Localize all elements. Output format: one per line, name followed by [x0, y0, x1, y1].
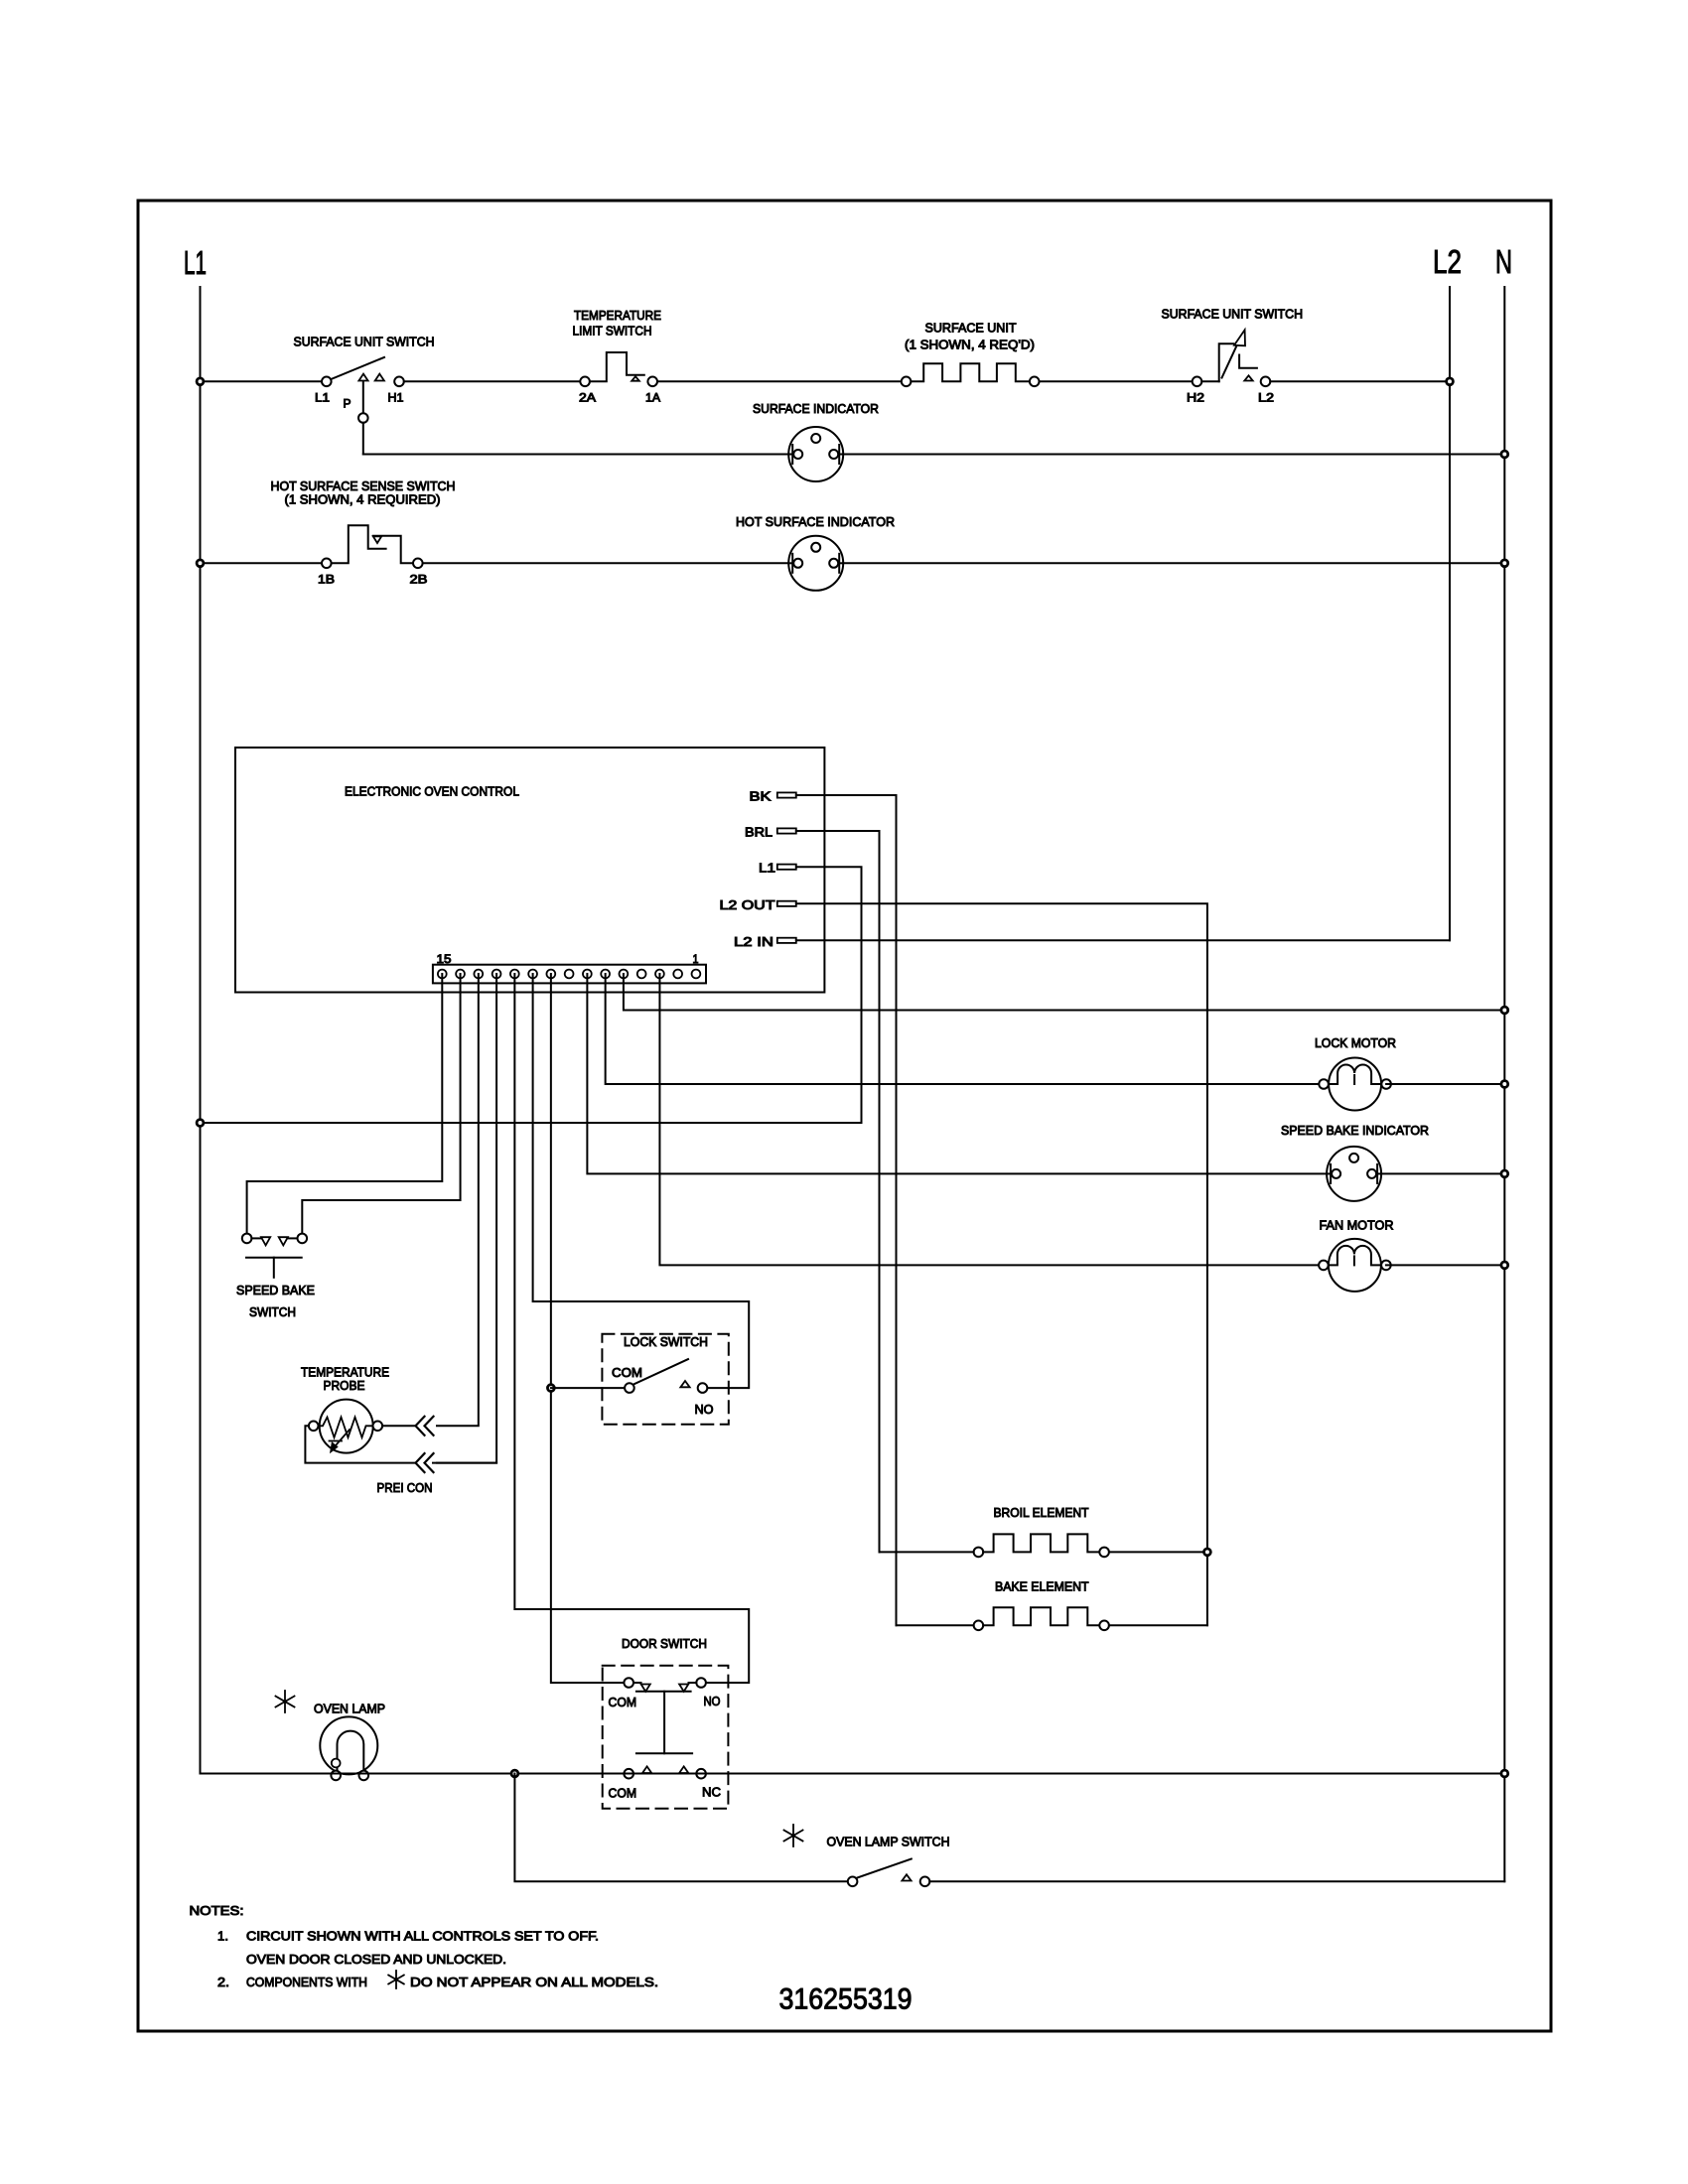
svg-text:P: P: [344, 397, 352, 411]
wire pin 13 to temperature probe connector: [437, 974, 479, 1426]
terminal circle on P branch: [358, 413, 368, 423]
bake element terminals and coil: [974, 1621, 984, 1631]
EOC strip pin 4: [637, 970, 646, 979]
wire pin 9 down to lock and door switches: [551, 974, 625, 1683]
wire bottom row L1 rail to oven lamp and door switch: [201, 1773, 1505, 1775]
hot surface sense switch contact triangle: [373, 536, 381, 543]
net N vertical rail wire: [1503, 287, 1505, 1881]
speed bake indicator lamp: [1327, 1147, 1381, 1201]
EOC strip pin 12: [492, 970, 501, 979]
lock switch contact triangle: [680, 1381, 689, 1387]
door switch lower contact triangles: [642, 1766, 651, 1773]
svg-text:SURFACE UNIT SWITCH: SURFACE UNIT SWITCH: [1162, 307, 1304, 322]
wire hot surface row to indicator: [423, 562, 789, 564]
svg-text:LOCK MOTOR: LOCK MOTOR: [1315, 1035, 1396, 1050]
wire pin 5 to N rail: [624, 974, 1504, 1011]
junction on L2 rail at top row: [1447, 378, 1454, 385]
svg-text:NOTES:: NOTES:: [190, 1903, 244, 1918]
wire top row L2 terminal to L2 rail: [1270, 380, 1450, 382]
svg-text:L1: L1: [315, 391, 330, 405]
EOC strip pin 9: [546, 970, 555, 979]
svg-text:DO NOT APPEAR ON ALL MODELS.: DO NOT APPEAR ON ALL MODELS.: [410, 1975, 658, 1989]
EOC strip pin 11: [510, 970, 519, 979]
probe connector chevrons upper: [416, 1417, 425, 1435]
wire lock motor to N rail: [1386, 1083, 1504, 1085]
wire pin 12 to probe return connector: [437, 974, 496, 1463]
broil element terminals and coil: [974, 1548, 984, 1558]
hot surface sense switch terminal 2B: [413, 559, 423, 569]
svg-text:L2: L2: [1433, 243, 1462, 280]
junction on L1 rail at hot surface row: [197, 560, 204, 567]
wire bake element to L2 OUT drop: [1109, 1624, 1207, 1626]
wire hot surface row to N rail: [843, 562, 1504, 564]
svg-text:H2: H2: [1187, 391, 1204, 405]
svg-text:H1: H1: [388, 391, 404, 405]
svg-text:NO: NO: [704, 1694, 721, 1708]
svg-text:N: N: [1495, 243, 1512, 280]
svg-text:COM: COM: [609, 1695, 637, 1709]
temperature limit switch terminal 1A: [647, 377, 657, 387]
temperature limit switch terminal 2A: [580, 377, 590, 387]
wire pin 11 to door switch NO: [514, 974, 749, 1683]
temperature limit switch contact triangle: [632, 376, 639, 381]
svg-text:1: 1: [693, 952, 699, 966]
svg-text:BROIL ELEMENT: BROIL ELEMENT: [994, 1505, 1089, 1520]
EOC tab BK terminal: [777, 792, 796, 797]
svg-text:FAN MOTOR: FAN MOTOR: [1320, 1218, 1394, 1233]
net L1 vertical rail wire: [200, 287, 202, 1774]
surface unit switch SW2 body with arrow blade: [1201, 380, 1218, 382]
junction on N rail at pin 5 wire: [1501, 1007, 1508, 1014]
wire EOC BK tab to vertical drop: [796, 795, 897, 1625]
svg-text:1A: 1A: [645, 391, 660, 405]
EOC strip pin 8: [565, 970, 574, 979]
EOC strip pin 13: [474, 970, 483, 979]
svg-text:LIMIT SWITCH: LIMIT SWITCH: [573, 324, 652, 339]
wire top row H1 to temperature limit switch: [404, 380, 581, 382]
svg-text:OVEN LAMP SWITCH: OVEN LAMP SWITCH: [827, 1835, 950, 1849]
probe connector chevrons lower: [416, 1453, 425, 1472]
svg-text:SURFACE INDICATOR: SURFACE INDICATOR: [753, 401, 879, 416]
oven lamp star mark: [276, 1691, 295, 1712]
svg-text:TEMPERATURE: TEMPERATURE: [574, 308, 661, 323]
fan motor M2: [1329, 1239, 1381, 1292]
wire surface indicator row from P branch to indicator: [363, 454, 788, 456]
wire probe right terminal to connector: [382, 1425, 414, 1427]
svg-text:L1: L1: [759, 861, 775, 876]
svg-text:DOOR SWITCH: DOOR SWITCH: [622, 1636, 707, 1651]
door switch dashed enclosure: [603, 1666, 729, 1809]
EOC tab L2 IN terminal: [777, 938, 796, 943]
wire EOC L1 tab to L1 rail via drop: [201, 867, 862, 1123]
surface indicator lamp: [788, 427, 843, 481]
svg-text:1.: 1.: [217, 1929, 228, 1944]
EOC strip pin 15: [438, 970, 447, 979]
svg-text:COM: COM: [609, 1786, 637, 1801]
svg-text:BAKE ELEMENT: BAKE ELEMENT: [995, 1579, 1089, 1594]
wire fan motor to N rail: [1386, 1264, 1504, 1266]
svg-text:(1 SHOWN, 4 REQ'D): (1 SHOWN, 4 REQ'D): [905, 338, 1035, 352]
door switch upper NO terminal: [696, 1678, 706, 1688]
svg-text:L1: L1: [184, 244, 207, 281]
door switch actuator plunger: [663, 1692, 665, 1753]
wire P branch down then to surface indicator row: [362, 423, 364, 455]
svg-text:(1 SHOWN, 4 REQUIRED): (1 SHOWN, 4 REQUIRED): [285, 492, 441, 507]
oven lamp switch contact triangle: [902, 1874, 911, 1880]
hot surface indicator lamp: [788, 536, 843, 591]
wire lower connector to pin 12 drop: [433, 1462, 496, 1464]
oven lamp switch terminal and blade: [848, 1877, 858, 1887]
EOC strip pin 5: [620, 970, 629, 979]
wire EOC BRL tab to vertical drop: [796, 831, 880, 1552]
temperature limit switch body: [590, 352, 644, 381]
speed bake switch actuator bar: [246, 1257, 302, 1259]
speed bake switch terminals: [242, 1234, 252, 1244]
EOC strip pin 10: [528, 970, 537, 979]
svg-text:SPEED BAKE: SPEED BAKE: [236, 1283, 315, 1297]
junction on L1 rail at top row: [197, 378, 204, 385]
oven lamp terminals: [331, 1771, 341, 1781]
svg-text:PROBE: PROBE: [324, 1378, 365, 1393]
lock switch dashed enclosure: [602, 1334, 728, 1425]
EOC strip pin 14: [456, 970, 465, 979]
door switch lower NC terminal: [696, 1769, 706, 1779]
junction on L1 rail at EOC L1 wire: [197, 1120, 204, 1127]
svg-text:SURFACE UNIT SWITCH: SURFACE UNIT SWITCH: [294, 335, 435, 349]
svg-text:COM: COM: [612, 1365, 642, 1380]
EOC strip pin 1: [692, 970, 701, 979]
wire speed bake indicator to N rail: [1381, 1172, 1504, 1174]
svg-text:CIRCUIT SHOWN WITH ALL CONTROL: CIRCUIT SHOWN WITH ALL CONTROLS SET TO O…: [246, 1929, 599, 1944]
door switch actuator upper bar: [636, 1691, 691, 1693]
junction bottom row to oven lamp switch feed: [511, 1770, 518, 1777]
junction on N rail at hot surface row: [1501, 560, 1508, 567]
EOC strip pin 3: [655, 970, 664, 979]
wire oven lamp switch to N rail: [929, 1880, 1504, 1882]
EOC strip pin 7: [583, 970, 592, 979]
wire surface indicator row to N rail: [843, 454, 1504, 456]
temperature probe resistor zigzag: [319, 1418, 373, 1438]
wire top row surface unit to right surface unit switch: [1040, 380, 1193, 382]
EOC terminal strip: [433, 965, 706, 984]
wire pin 15 to speed bake switch: [247, 974, 443, 1234]
svg-text:BK: BK: [750, 789, 772, 804]
electronic oven control box U1: [235, 748, 824, 993]
EOC tab L1 terminal: [777, 865, 796, 870]
svg-text:316255319: 316255319: [779, 1983, 913, 2016]
hot surface sense switch terminal 1B: [322, 559, 332, 569]
svg-text:L2 OUT: L2 OUT: [720, 897, 775, 912]
wire pin 3 to fan motor row: [659, 974, 1318, 1265]
oven lamp switch right terminal: [920, 1877, 930, 1887]
door switch upper COM terminal: [624, 1678, 633, 1688]
lock switch NO terminal: [698, 1383, 708, 1393]
surface unit switch SW2 contact triangle: [1244, 375, 1252, 380]
wire broil element to L2 OUT drop: [1109, 1551, 1207, 1553]
svg-text:SWITCH: SWITCH: [249, 1304, 296, 1319]
wire P branch down from surface unit switch: [362, 381, 364, 413]
svg-text:2B: 2B: [410, 573, 428, 587]
EOC tab L2 OUT terminal: [777, 901, 796, 906]
surface unit switch SW2 terminal L2: [1261, 377, 1271, 387]
EOC strip pin 6: [601, 970, 610, 979]
wire pin 7 to speed bake indicator row: [587, 974, 1327, 1173]
net L2 vertical rail wire: [1449, 287, 1451, 940]
svg-text:PREI CON: PREI CON: [377, 1480, 433, 1495]
oven lamp switch star mark: [784, 1825, 803, 1846]
junction on N rail at surface indicator row: [1501, 451, 1508, 458]
lock motor M1: [1329, 1058, 1381, 1111]
junction on N rail at lock motor: [1501, 1081, 1508, 1088]
svg-text:LOCK SWITCH: LOCK SWITCH: [624, 1334, 708, 1349]
wire hot surface row from L1 rail to sense switch: [201, 562, 323, 564]
temperature probe thermistor arrow: [333, 1430, 350, 1449]
svg-text:COMPONENTS WITH: COMPONENTS WITH: [246, 1975, 367, 1989]
surface unit switch SW1 contact triangles: [358, 374, 367, 381]
EOC tab BRL terminal: [777, 828, 796, 833]
wire EOC L2 OUT tab to elements drop: [796, 903, 1207, 1625]
door switch actuator lower bar: [636, 1752, 692, 1754]
hot surface sense switch body: [332, 525, 386, 563]
svg-text:NO: NO: [695, 1402, 714, 1417]
wire bottom row to oven lamp switch: [514, 1774, 847, 1882]
oven lamp bulb: [320, 1716, 377, 1774]
wire pin 10 to lock switch NO: [533, 974, 750, 1388]
svg-text:SURFACE UNIT: SURFACE UNIT: [925, 321, 1017, 336]
surface unit switch SW1 terminal L1 with blade: [322, 377, 332, 387]
junction broil element at L2 OUT drop: [1204, 1549, 1211, 1556]
junction on N rail at fan motor: [1501, 1262, 1508, 1269]
wire bake element left to BK drop: [897, 1624, 974, 1626]
svg-text:OVEN DOOR CLOSED AND UNLOCKED.: OVEN DOOR CLOSED AND UNLOCKED.: [246, 1952, 506, 1967]
junction pin 9 wire at lock switch row: [547, 1385, 554, 1392]
wire EOC L2 IN tab to L2 rail: [796, 939, 1450, 941]
svg-text:L2 IN: L2 IN: [734, 934, 774, 949]
temperature probe body: [320, 1400, 373, 1453]
svg-text:2A: 2A: [579, 391, 596, 405]
door switch upper contact triangles: [633, 1682, 641, 1684]
wire top row from L1 rail to surface unit switch: [201, 380, 327, 382]
wire lock switch row from pin9 junction to COM: [551, 1387, 625, 1389]
junction on N rail at speed bake indicator: [1501, 1170, 1508, 1177]
wire top row 1A to surface unit element: [657, 380, 902, 382]
speed bake switch contacts: [251, 1237, 261, 1239]
svg-text:ELECTRONIC OVEN CONTROL: ELECTRONIC OVEN CONTROL: [345, 784, 519, 799]
junction on N rail at bottom row: [1501, 1770, 1508, 1777]
svg-text:1B: 1B: [318, 573, 335, 587]
lock switch COM terminal and blade: [625, 1383, 634, 1393]
svg-text:L2: L2: [1258, 391, 1274, 405]
wire broil element left to BRL drop: [880, 1551, 974, 1553]
svg-text:15: 15: [437, 952, 452, 966]
surface unit element terminals and coil: [902, 377, 912, 387]
EOC strip pin 2: [673, 970, 682, 979]
svg-text:HOT SURFACE INDICATOR: HOT SURFACE INDICATOR: [736, 514, 895, 529]
svg-text:BRL: BRL: [745, 825, 773, 840]
svg-text:SPEED BAKE INDICATOR: SPEED BAKE INDICATOR: [1281, 1123, 1429, 1138]
svg-text:NC: NC: [702, 1785, 721, 1800]
door switch lower COM terminal: [624, 1769, 633, 1779]
outer border frame of drawing: [138, 201, 1551, 2031]
svg-text:2.: 2.: [217, 1975, 229, 1989]
surface unit switch SW1 terminal H1: [394, 377, 404, 387]
wire pin 14 to speed bake switch: [302, 974, 460, 1234]
svg-text:OVEN LAMP: OVEN LAMP: [314, 1702, 385, 1716]
wire pin 6 to lock motor row: [606, 974, 1319, 1084]
wire probe left terminal loop to lower connector: [305, 1426, 414, 1462]
surface unit switch SW2 terminal H2: [1193, 377, 1202, 387]
